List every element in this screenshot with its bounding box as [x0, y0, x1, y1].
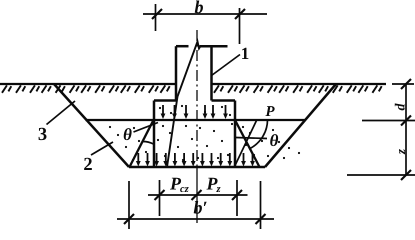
- leader for label 2: [91, 142, 113, 155]
- leader for right theta: [236, 138, 267, 139]
- angle arc at right footing corner: [249, 119, 268, 149]
- label Pcz: [170, 178, 181, 190]
- pressure arrows at footing base (upper row): [161, 105, 228, 119]
- tick center: [192, 190, 202, 200]
- extension line right for Pz: [236, 180, 238, 216]
- dimension line for Pcz and Pz: [148, 194, 248, 196]
- tick left of b dimension: [152, 9, 162, 19]
- extension line at footing base level (right): [362, 120, 415, 122]
- extension line left for b: [155, 4, 157, 31]
- leader line for label 1: [212, 55, 241, 76]
- extension line right for b': [260, 181, 262, 229]
- footing base level line across cushion: [86, 119, 306, 121]
- tick Pz right: [232, 190, 242, 200]
- column 1: right side: [210, 46, 213, 100]
- auxiliary line crossing right spread line: [236, 121, 257, 165]
- stipple dots (cushion / concrete texture): [109, 105, 300, 161]
- pressure spread line right (angle theta): [235, 120, 260, 167]
- tick at ground level: [401, 79, 411, 89]
- label P (pressure): [265, 106, 274, 116]
- label Pz: [206, 178, 217, 190]
- tick at footing base level: [401, 116, 411, 126]
- ground surface line (left of column): [0, 83, 176, 85]
- dimension line b (top): [143, 13, 267, 15]
- vertical dimension line for d and z: [405, 84, 407, 175]
- label d (embedment depth, rotated): [395, 103, 405, 110]
- dimension line b' (bottom): [117, 218, 274, 220]
- centerline extension below footing: [196, 167, 198, 223]
- label b: [195, 1, 203, 14]
- ground level extension (right): [392, 83, 414, 85]
- label 2 (cushion): [84, 158, 92, 170]
- soil hatch marks below ground line: [2, 85, 382, 92]
- pressure spread line left (angle theta): [130, 120, 154, 167]
- extension line left for b': [128, 181, 130, 229]
- ground surface line (right of column): [212, 83, 387, 85]
- column 1: left side: [175, 46, 178, 100]
- leader for left theta: [134, 123, 159, 133]
- label 1 (column): [242, 48, 248, 59]
- angle arc at left footing corner: [143, 142, 154, 145]
- pressure arrows at cushion bottom (lower row): [136, 153, 255, 167]
- cushion excavation slope left (labelled 3): [54, 84, 129, 167]
- column 1: top edge left segment: [176, 45, 189, 48]
- cushion excavation slope right: [265, 84, 336, 167]
- tick Pcz left: [155, 190, 165, 200]
- footing block: top edge left part: [154, 99, 176, 102]
- extension line left for Pcz: [159, 180, 161, 216]
- label z (cushion thickness, rotated): [399, 149, 405, 154]
- column 1: top edge right segment: [200, 45, 228, 48]
- label theta (right): [270, 134, 278, 146]
- label theta (left): [124, 128, 132, 140]
- tick b' left: [124, 214, 134, 224]
- centerline (dash-dot) of column and footing: [196, 30, 198, 167]
- tick at cushion bottom level: [401, 170, 411, 180]
- extension line at cushion bottom level (right): [347, 174, 415, 176]
- tick b' right: [256, 214, 266, 224]
- tick right of b dimension: [235, 9, 245, 19]
- column break mark (long slash with jog): [167, 42, 201, 168]
- footing block: left side: [153, 101, 156, 168]
- label 3 (slope): [39, 128, 47, 140]
- leader for label 3: [47, 101, 76, 125]
- label b': [194, 201, 207, 214]
- extension line right for b: [239, 8, 241, 44]
- cushion bottom line: [129, 166, 265, 169]
- footing block: right side: [234, 101, 237, 168]
- footing block: top edge right part: [212, 99, 236, 102]
